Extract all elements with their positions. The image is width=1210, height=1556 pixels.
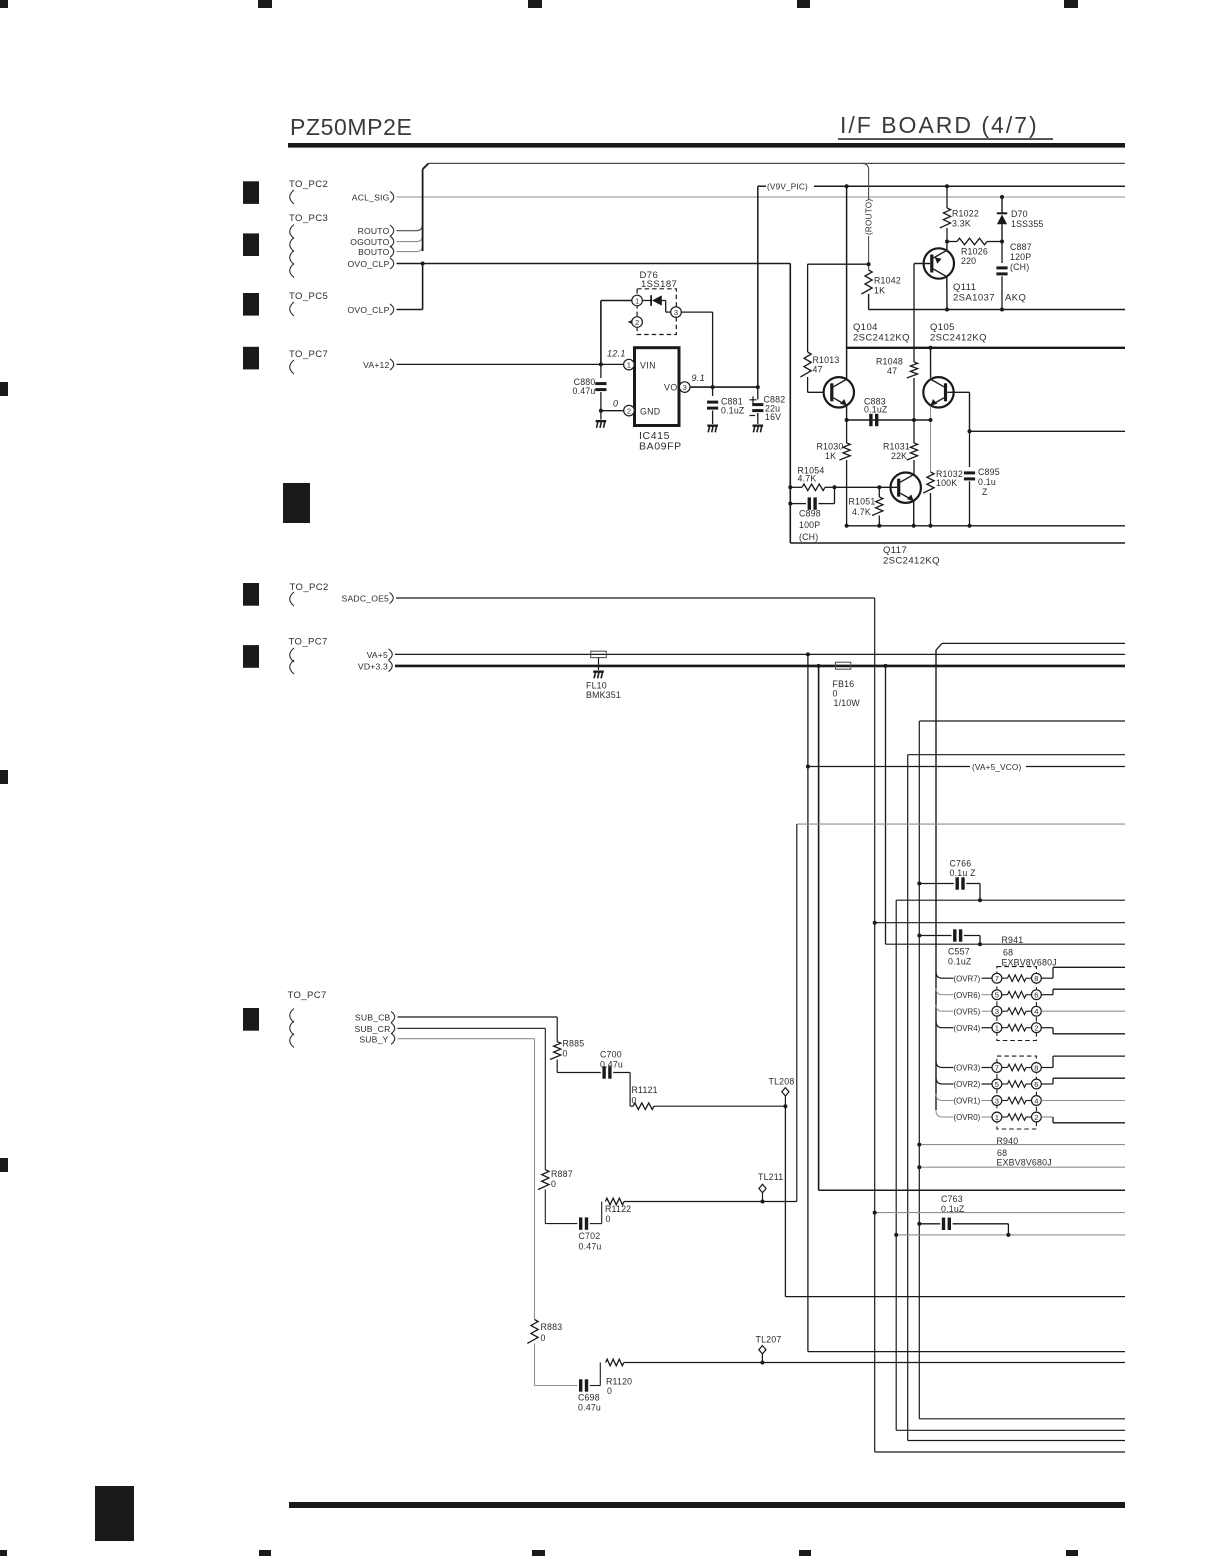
svg-text:C766: C766 <box>950 859 972 869</box>
svg-text:VIN: VIN <box>640 361 656 371</box>
wire Q105 base line right <box>970 430 1126 432</box>
node rail/Q105 collector junction <box>929 346 933 350</box>
svg-text:TL211: TL211 <box>758 1172 783 1182</box>
registration mark bottom 4 <box>799 1550 811 1556</box>
net label ROUTO vertical <box>865 199 874 235</box>
svg-text:R1120: R1120 <box>606 1377 632 1387</box>
IC415 pin names <box>640 361 678 417</box>
svg-text:(VA+5_VCO): (VA+5_VCO) <box>972 763 1021 772</box>
svg-text:5: 5 <box>995 1080 999 1089</box>
wire Q111 bottom rail <box>869 309 1125 311</box>
svg-text:16V: 16V <box>765 412 781 422</box>
node TL208 junction <box>783 1104 787 1108</box>
resistor array element OVR6 <box>936 988 1125 1000</box>
resistor R887 <box>538 1170 549 1190</box>
capacitor C557 label <box>948 947 972 967</box>
svg-text:5: 5 <box>995 991 999 1000</box>
wire R883 to C698 <box>535 1343 578 1385</box>
svg-text:0: 0 <box>632 1096 637 1106</box>
svg-text:BOUTO: BOUTO <box>358 247 390 257</box>
filter FL10 label <box>586 681 621 701</box>
wire ROUTO to R1013 <box>808 264 869 352</box>
wire ROUTO entry <box>397 224 423 231</box>
connector TO_PC2 lower arc <box>290 592 294 606</box>
wire VD+3.3 branch vertical <box>818 666 820 1190</box>
connector TO_PC7 bottom label <box>288 990 327 1001</box>
svg-text:FL10: FL10 <box>586 681 607 691</box>
capacitor C766 label <box>950 859 977 879</box>
diode D70 <box>997 197 1007 242</box>
pin VD+3.3 <box>358 660 392 671</box>
diode D76 pin 3 <box>671 307 682 318</box>
resistor R1022 label <box>952 209 979 229</box>
svg-text:2: 2 <box>635 318 639 327</box>
svg-text:OVO_CLP: OVO_CLP <box>348 305 390 315</box>
node OVO_CLP/C898 junction <box>788 502 792 506</box>
pin ACL_SIG <box>352 191 394 202</box>
svg-text:1: 1 <box>635 296 639 305</box>
svg-text:3.3K: 3.3K <box>952 219 971 229</box>
resistor R885 <box>550 1042 561 1060</box>
svg-text:0: 0 <box>613 399 618 409</box>
connector TO_PC7 mid label <box>289 637 328 648</box>
svg-text:47: 47 <box>813 365 823 375</box>
svg-text:0.1u: 0.1u <box>978 477 996 487</box>
svg-text:4.7K: 4.7K <box>852 507 871 517</box>
registration mark bottom 2 <box>259 1550 271 1556</box>
node C763 left junction <box>917 1222 921 1226</box>
svg-text:0.47u: 0.47u <box>600 1060 623 1070</box>
svg-text:8: 8 <box>1034 1063 1038 1072</box>
testpoint TL211 <box>758 1172 783 1202</box>
index square 3 <box>243 293 259 316</box>
resistor R887 label <box>551 1169 573 1189</box>
resistor R1042 label <box>874 276 901 296</box>
diode D76 pin 1 <box>632 295 643 306</box>
resistor array element OVR3 <box>936 1056 1125 1073</box>
svg-text:12.1: 12.1 <box>607 349 626 359</box>
resistor R1054 label <box>798 466 825 484</box>
connector TO_PC7 bottom arcs <box>290 1009 294 1048</box>
node rail/R1030 junction <box>845 524 849 528</box>
node ACL_SIG/D70 junction <box>1000 195 1004 199</box>
svg-text:0: 0 <box>833 689 838 699</box>
svg-text:68: 68 <box>997 1148 1007 1158</box>
wire VA+5 branch vertical <box>807 654 809 1351</box>
wire TL208 net bottom <box>785 1296 1125 1298</box>
diode D70 label <box>1011 209 1044 229</box>
capacitor C700 label <box>600 1050 623 1070</box>
resistor R1122 label <box>605 1204 631 1224</box>
resistor R1026 <box>947 238 1002 245</box>
diode D76 label <box>640 270 678 290</box>
svg-text:1SS187: 1SS187 <box>641 279 677 290</box>
svg-text:1/10W: 1/10W <box>834 698 861 708</box>
node rail/Q111 collector junction <box>945 308 949 312</box>
wire TL208 vertical <box>784 1106 786 1296</box>
node C557 left junction <box>917 934 921 938</box>
wire VD+3.3 branch 2 vertical <box>885 666 887 944</box>
resistor R1022 <box>940 186 951 241</box>
voltage 0 <box>613 399 618 409</box>
svg-text:(OVR7): (OVR7) <box>954 974 981 983</box>
footer bar <box>289 1502 1125 1508</box>
svg-text:EXBV8V680J: EXBV8V680J <box>1002 958 1057 968</box>
wire Q104 emitter down <box>846 406 848 420</box>
wire C883 coupling line <box>847 419 931 421</box>
pin ROUTO <box>358 225 394 236</box>
resistor R1051 <box>872 487 883 526</box>
svg-text:2SA1037: 2SA1037 <box>953 293 995 304</box>
wire Q105 emitter down <box>930 406 932 418</box>
svg-text:7: 7 <box>995 974 999 983</box>
registration mark left 2 <box>0 770 8 784</box>
svg-text:R1013: R1013 <box>813 355 840 365</box>
resistor R1042 <box>861 270 872 294</box>
resistor array element OVR2 <box>936 1078 1125 1090</box>
wire net B bottom <box>919 1418 1125 1420</box>
svg-text:TO_PC3: TO_PC3 <box>289 213 328 224</box>
resistor R1122 <box>605 1198 796 1205</box>
node R1022/R1026/Q111e junction <box>945 240 949 244</box>
node VA+12/C880 junction <box>599 362 603 366</box>
resistor R1120 <box>606 1359 1125 1366</box>
capacitor C887 label <box>1010 242 1032 272</box>
capacitor C880 <box>595 364 606 419</box>
wire C763 net gray <box>896 1234 1125 1236</box>
svg-text:C898: C898 <box>799 509 821 519</box>
node ROUTO junction <box>867 262 871 266</box>
svg-text:TL208: TL208 <box>769 1077 795 1087</box>
connector TO_PC2 label <box>289 179 328 190</box>
svg-text:(OVR5): (OVR5) <box>954 1007 981 1016</box>
pin SADC_OE5 <box>342 592 394 603</box>
wire right net B <box>919 721 1125 1419</box>
resistor R1031 label <box>883 442 910 462</box>
svg-text:1: 1 <box>995 1113 999 1122</box>
transistor Q111 PNP <box>924 248 954 278</box>
ground under C881 <box>707 425 718 433</box>
svg-text:9.1: 9.1 <box>692 373 705 383</box>
node C883 left junction <box>845 418 849 422</box>
IC415 pin 3 <box>679 382 690 393</box>
resistor network R940 label <box>997 1136 1052 1168</box>
svg-text:0: 0 <box>551 1179 556 1189</box>
connector TO_PC5 label <box>289 291 328 302</box>
regulator IC415 box <box>635 348 680 426</box>
capacitor C883 label <box>864 397 888 415</box>
wire Q111 collector down <box>946 277 948 310</box>
svg-text:C557: C557 <box>948 947 970 957</box>
svg-text:0: 0 <box>606 1214 611 1224</box>
svg-text:3: 3 <box>995 1096 999 1105</box>
wire R940 line 1 <box>919 1144 1125 1146</box>
capacitor C882 polarized <box>750 387 764 424</box>
pin OVO_CLP (TO_PC3) <box>348 258 394 269</box>
svg-text:VD+3.3: VD+3.3 <box>358 662 388 672</box>
node V9V_PIC/R1022 junction <box>945 184 949 188</box>
index square 5 <box>243 583 259 606</box>
resistor R1048 label <box>876 357 903 377</box>
svg-text:0.1uZ: 0.1uZ <box>864 405 888 415</box>
node C763 net right junction <box>1006 1233 1010 1237</box>
svg-text:Q111: Q111 <box>953 282 976 293</box>
resistor array element OVR0 <box>936 1111 1125 1123</box>
svg-text:C763: C763 <box>941 1194 963 1204</box>
wire ROUTO lower segment <box>868 236 870 270</box>
resistor R1026 label <box>961 247 988 267</box>
transistor Q111 label <box>953 282 1026 304</box>
wire OGOUTO entry <box>397 235 423 241</box>
svg-text:22K: 22K <box>891 451 907 461</box>
svg-text:SADC_OE5: SADC_OE5 <box>342 594 389 604</box>
svg-text:0: 0 <box>607 1386 612 1396</box>
svg-text:I/F BOARD (4/7): I/F BOARD (4/7) <box>840 112 1039 138</box>
resistor R1031 <box>907 443 918 475</box>
wire SUB_Y <box>398 1039 535 1320</box>
svg-text:R1051: R1051 <box>849 497 876 507</box>
svg-text:0.1uZ: 0.1uZ <box>948 957 972 967</box>
svg-text:(OVR1): (OVR1) <box>954 1097 981 1106</box>
resistor array element OVR7 <box>936 967 1125 983</box>
svg-text:0: 0 <box>541 1333 546 1343</box>
node C883/R1048 junction <box>912 418 916 422</box>
svg-text:1K: 1K <box>825 451 836 461</box>
ground under C882 <box>753 425 764 433</box>
diode D76 dashed box <box>637 289 676 335</box>
svg-text:100K: 100K <box>936 478 957 488</box>
resistor R1013 label <box>813 355 840 375</box>
svg-text:1: 1 <box>995 1024 999 1033</box>
index square 4 <box>243 347 259 370</box>
wire SUB_CR <box>398 1028 546 1169</box>
wire VA+5 branch bottom <box>808 1351 1125 1353</box>
transistor Q117 label <box>883 545 940 567</box>
svg-text:R1026: R1026 <box>961 247 988 257</box>
node VD+3.3 branch 1 <box>817 664 821 668</box>
title underline <box>838 138 1053 140</box>
svg-text:TL207: TL207 <box>756 1335 782 1345</box>
bus line top <box>429 162 1126 164</box>
svg-text:6: 6 <box>1034 1080 1038 1089</box>
node C763 net left junction <box>894 1233 898 1237</box>
wire SADC branch 2 gray <box>875 1212 1125 1214</box>
svg-text:R941: R941 <box>1002 935 1024 945</box>
svg-text:R1031: R1031 <box>883 442 910 452</box>
resistor network R941 label <box>1002 935 1057 968</box>
pin SUB_Y <box>359 1033 394 1044</box>
node C880 gnd junction <box>599 409 603 413</box>
capacitor C766 <box>919 877 980 900</box>
capacitor C881 label <box>721 397 745 416</box>
resistor array R940 dashed box <box>997 1056 1037 1129</box>
wire SUB_CB <box>398 1017 558 1042</box>
svg-text:3: 3 <box>995 1007 999 1016</box>
resistor R1054 <box>790 484 834 491</box>
filter FL10 <box>591 651 607 670</box>
svg-text:220: 220 <box>961 256 976 266</box>
svg-text:2SC2412KQ: 2SC2412KQ <box>853 333 910 344</box>
svg-text:1SS355: 1SS355 <box>1011 219 1044 229</box>
node rail/R1051 junction <box>877 524 881 528</box>
node Q105 base/C895 junction <box>968 429 972 433</box>
node rail/C887 junction <box>1000 308 1004 312</box>
node rail/Q117 emitter junction <box>912 524 916 528</box>
testpoint TL207 <box>756 1335 782 1363</box>
node SADC branch 1 junction <box>873 921 877 925</box>
node Q117 base/R1051 junction <box>877 485 881 489</box>
node SADC branch 2 junction <box>873 1211 877 1215</box>
wire R1048 to C883 rail <box>913 378 915 443</box>
wire right net A <box>936 643 1125 650</box>
node VD+3.3 branch 2 <box>884 664 888 668</box>
connector TO_PC5 body arc <box>290 302 294 316</box>
svg-text:4: 4 <box>1034 1007 1038 1016</box>
index square tall <box>283 483 310 523</box>
svg-text:68: 68 <box>1003 948 1013 958</box>
pin VA+5 <box>367 649 393 660</box>
node Q117 base/C898 junction <box>833 485 837 489</box>
svg-text:(ROUTO): (ROUTO) <box>865 199 874 235</box>
registration mark left 3 <box>0 1158 8 1172</box>
svg-text:3: 3 <box>683 383 687 392</box>
svg-text:0.47u: 0.47u <box>572 386 595 396</box>
ferrite FB16 <box>836 662 851 669</box>
wire VD+3.3 branch bottom <box>819 1189 1125 1191</box>
wire R885 to C700 <box>557 1060 601 1073</box>
svg-text:VA+12: VA+12 <box>363 360 389 370</box>
registration mark top 5 <box>1064 0 1078 8</box>
connector TO_PC7 body arc <box>290 360 294 374</box>
connector TO_PC7 label <box>289 349 328 360</box>
wire C766 net <box>896 900 1125 1430</box>
capacitor C880 label <box>572 377 595 396</box>
index square 1 <box>243 181 259 204</box>
header bar <box>288 143 1125 148</box>
svg-text:0.1uZ: 0.1uZ <box>721 406 745 416</box>
pin SUB_CR <box>354 1023 394 1034</box>
capacitor C763 <box>919 1218 1008 1235</box>
wire Q117 emitter down <box>913 501 915 526</box>
svg-text:(OVR6): (OVR6) <box>954 991 981 1000</box>
registration mark bottom 3 <box>532 1550 545 1556</box>
transistor Q117 NPN <box>891 473 921 503</box>
wire Q105 collector up <box>930 348 932 378</box>
resistor R885 label <box>563 1039 585 1059</box>
wire OVO_CLP vertical <box>789 264 791 544</box>
svg-text:C887: C887 <box>1010 242 1032 252</box>
svg-text:BA09FP: BA09FP <box>639 441 682 453</box>
index square 6 <box>243 645 259 668</box>
svg-text:(CH): (CH) <box>799 532 818 542</box>
node C766 left junction <box>917 882 921 886</box>
wire Q111 base to R1048 <box>913 264 915 363</box>
svg-text:PZ50MP2E: PZ50MP2E <box>290 114 412 140</box>
node C766 net junction <box>978 898 982 902</box>
capacitor C763 label <box>941 1194 965 1214</box>
net ROUTO branch curve <box>862 163 869 200</box>
wire VD+3.3 thick <box>395 665 1125 668</box>
svg-text:R1048: R1048 <box>876 357 903 367</box>
svg-text:GND: GND <box>640 407 660 417</box>
wire net C bottom <box>908 1440 1125 1442</box>
capacitor C698 <box>579 1363 600 1392</box>
connector TO_PC7 mid arcs <box>290 648 294 674</box>
registration mark top 2 <box>258 0 272 8</box>
svg-text:AKQ: AKQ <box>1005 293 1026 304</box>
svg-text:VO: VO <box>664 383 678 393</box>
registration mark top 4 <box>797 0 810 8</box>
transistor Q105 NPN mirrored <box>923 377 953 407</box>
resistor R1013 <box>800 352 811 377</box>
svg-text:Q105: Q105 <box>930 322 955 333</box>
connector TO_PC3 body arcs <box>290 225 294 278</box>
wire emitter ground rail <box>847 525 1125 527</box>
wire bundle vertical <box>423 163 429 251</box>
node OVO_CLP junction <box>421 262 425 266</box>
svg-text:TO_PC7: TO_PC7 <box>289 349 328 360</box>
wire C557 net <box>886 943 1126 945</box>
svg-text:SUB_CR: SUB_CR <box>354 1024 390 1034</box>
svg-text:Z: Z <box>982 487 988 497</box>
wire Q105 base right <box>947 392 969 431</box>
svg-text:R1122: R1122 <box>605 1204 631 1214</box>
svg-text:Q104: Q104 <box>853 322 878 333</box>
wire D76 pin3 down to VO <box>682 312 713 387</box>
svg-text:SUB_Y: SUB_Y <box>359 1034 388 1044</box>
connector TO_PC3 label <box>289 213 328 224</box>
title PZ50MP2E <box>290 114 412 140</box>
wire SADC_OE5 <box>396 598 875 1452</box>
resistor array R941 dashed box <box>997 967 1037 1041</box>
registration mark top 1 <box>0 0 8 8</box>
wire OVO_CLP bottom to right <box>790 542 1125 544</box>
wire R1042 to bottom rail <box>868 294 870 310</box>
svg-text:C700: C700 <box>600 1050 622 1060</box>
pin OVO_CLP (TO_PC5) <box>348 304 394 315</box>
svg-text:TO_PC7: TO_PC7 <box>289 637 328 648</box>
wire IC415 GND <box>601 410 624 412</box>
diode D76 pin 2 <box>628 317 643 328</box>
transistor Q105 label <box>930 322 987 344</box>
svg-text:Q117: Q117 <box>883 545 907 556</box>
diode D76 symbol <box>643 295 666 306</box>
svg-text:47: 47 <box>887 366 897 376</box>
resistor R1121 label <box>632 1085 658 1106</box>
svg-text:OGOUTO: OGOUTO <box>350 237 389 247</box>
svg-text:EXBV8V680J: EXBV8V680J <box>997 1158 1052 1168</box>
wire BOUTO entry <box>397 245 423 251</box>
wire D76 pin1 to VIN node <box>601 301 632 365</box>
svg-text:R1030: R1030 <box>817 442 844 452</box>
capacitor C887 <box>996 242 1007 310</box>
registration mark left 1 <box>0 382 8 396</box>
svg-text:TO_PC2: TO_PC2 <box>289 179 328 190</box>
pin BOUTO <box>358 246 394 257</box>
title IF BOARD 4/7 <box>840 112 1039 138</box>
connector TO_PC2 body arc <box>290 190 294 204</box>
svg-text:2SC2412KQ: 2SC2412KQ <box>883 556 940 567</box>
svg-text:0.1uZ: 0.1uZ <box>941 1204 965 1214</box>
svg-text:(CH): (CH) <box>1010 262 1029 272</box>
capacitor C898 label <box>799 509 821 543</box>
net V9V_PIC vertical <box>757 186 759 387</box>
svg-text:2: 2 <box>627 406 631 415</box>
node R940 line 1 junction <box>917 1143 921 1147</box>
ground FL10 <box>593 671 604 679</box>
wire D76 to pin 3 <box>666 301 671 313</box>
resistor R1030 <box>839 420 850 526</box>
